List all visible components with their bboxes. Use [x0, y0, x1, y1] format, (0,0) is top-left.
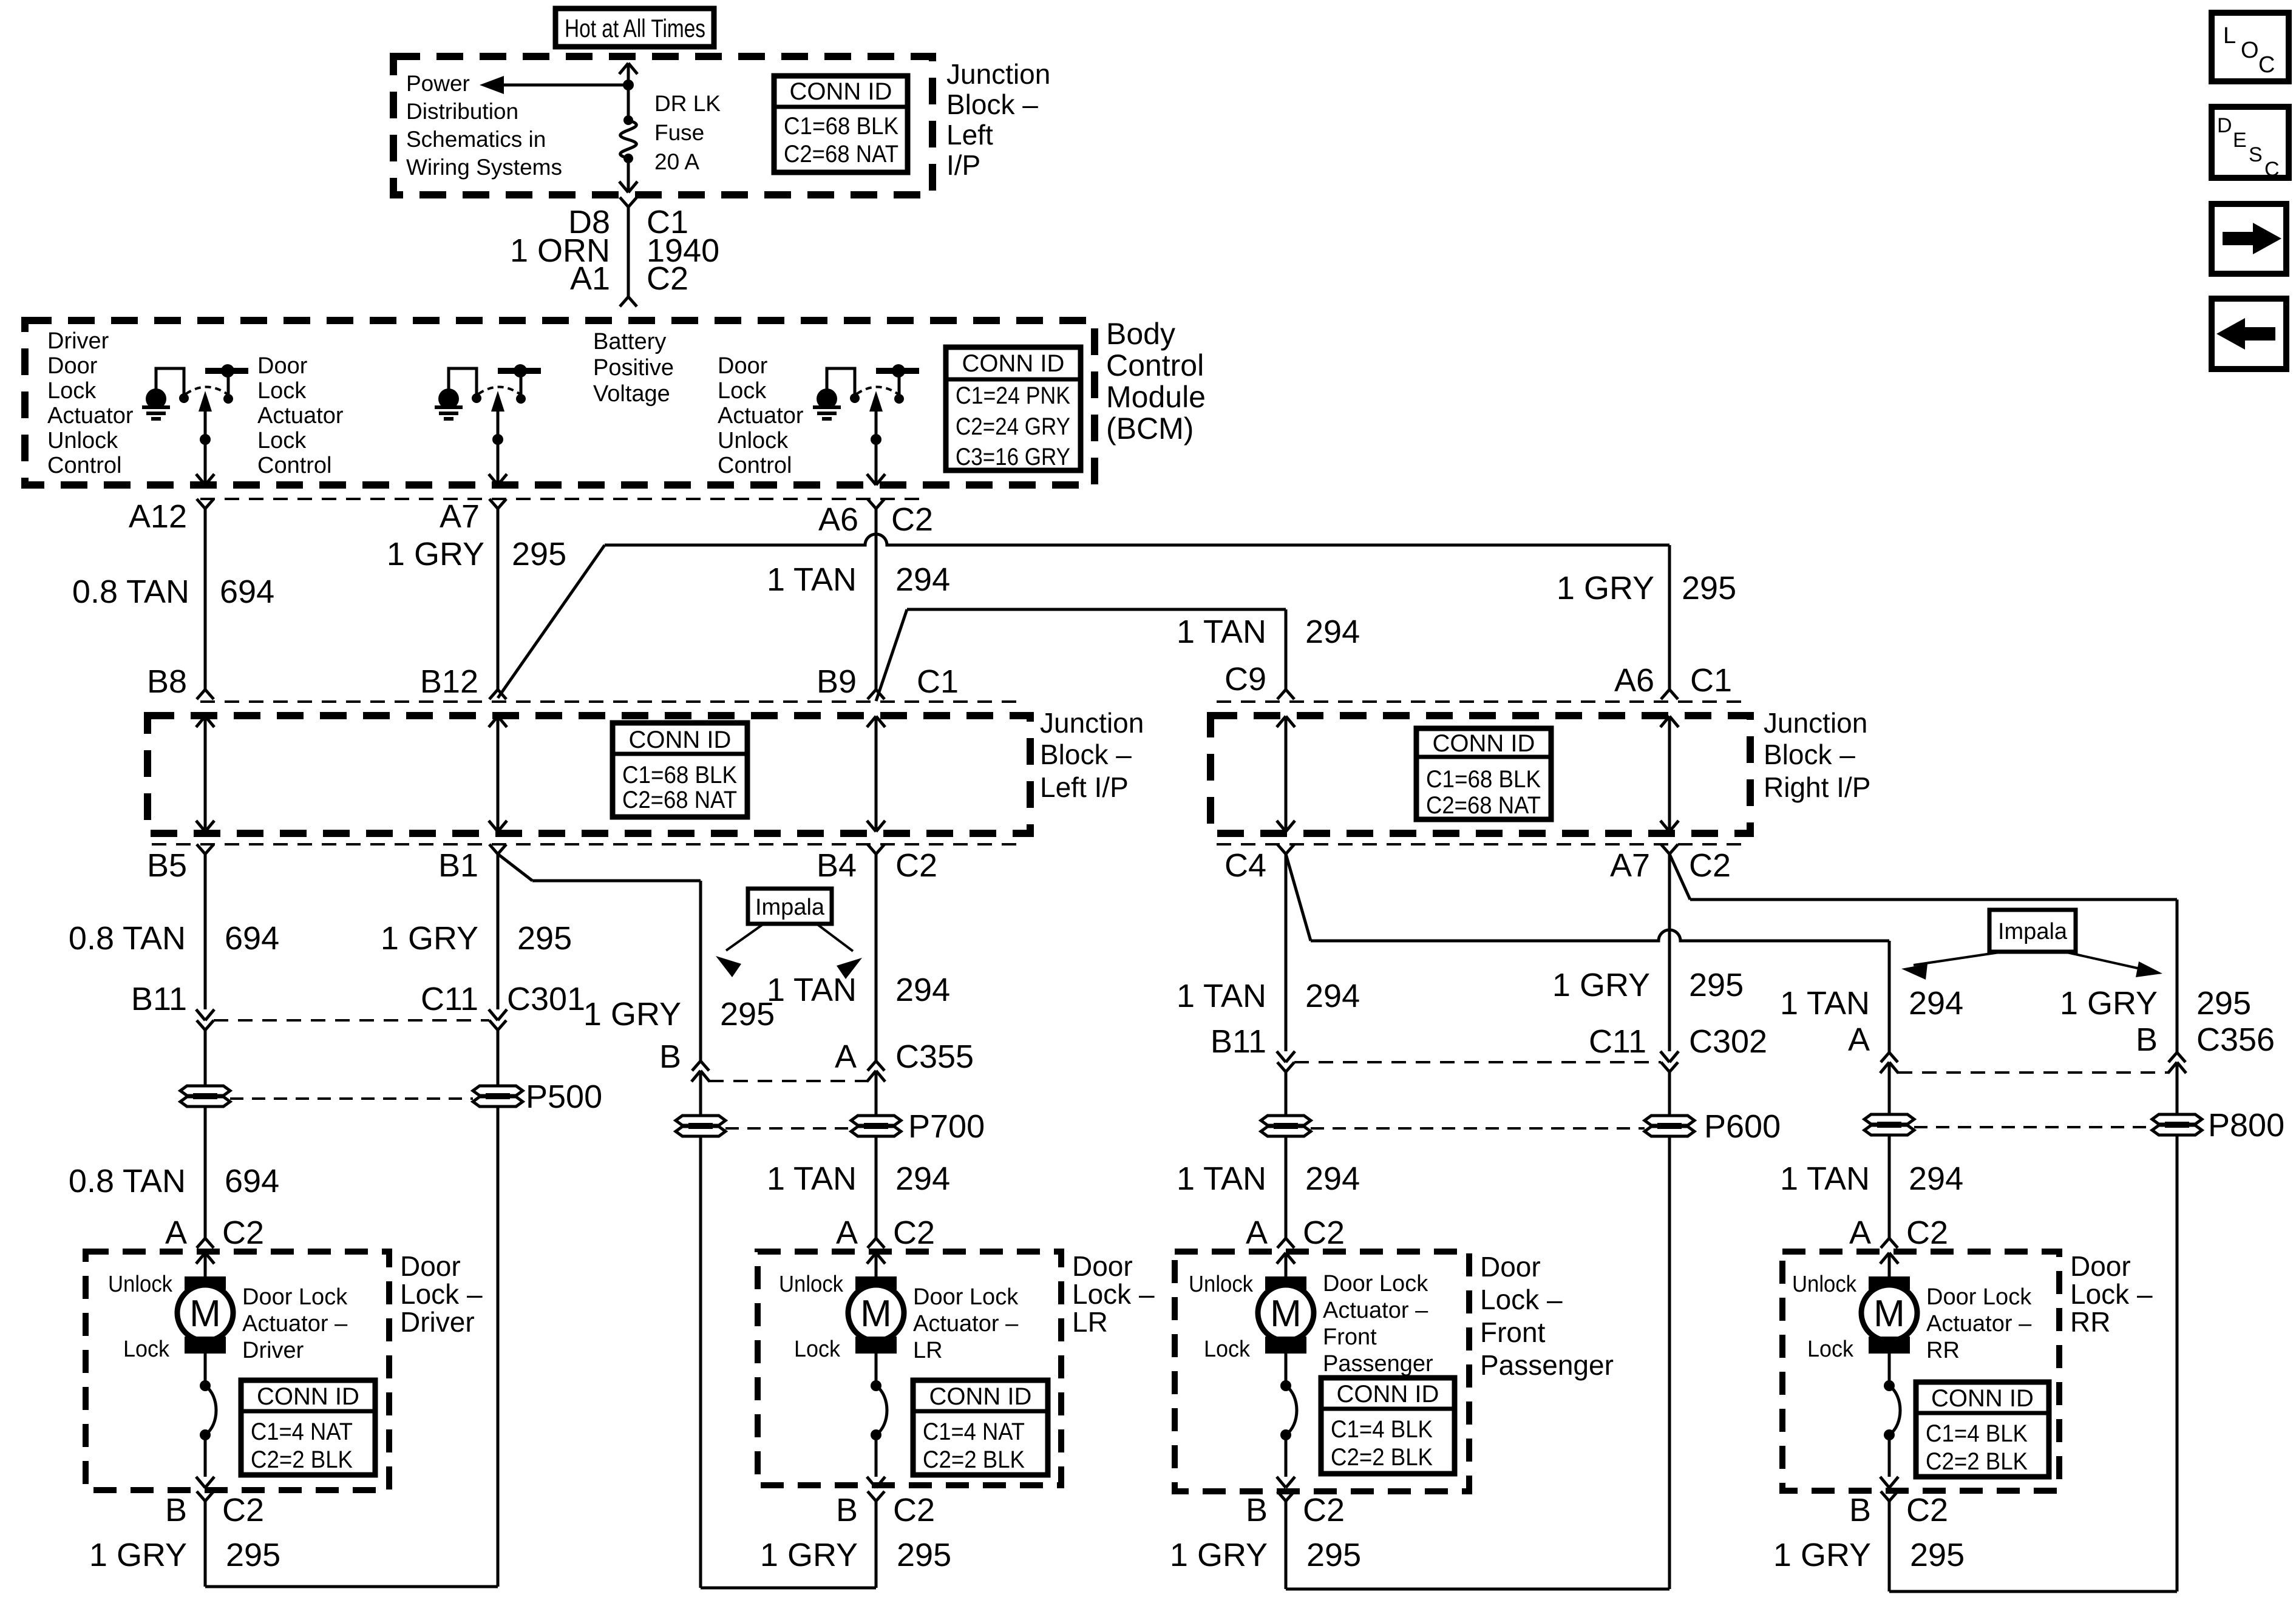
svg-text:Lock: Lock — [123, 1337, 170, 1362]
svg-text:C1=68 BLK: C1=68 BLK — [1426, 766, 1541, 793]
svg-text:C1=4 BLK: C1=4 BLK — [1331, 1416, 1433, 1443]
svg-text:D: D — [2217, 114, 2232, 137]
svg-text:Block –: Block – — [1764, 739, 1855, 770]
svg-text:C: C — [2258, 52, 2275, 78]
svg-text:B5: B5 — [147, 847, 187, 884]
svg-text:B11: B11 — [1211, 1023, 1266, 1060]
svg-text:C1=4 BLK: C1=4 BLK — [1926, 1420, 2028, 1447]
svg-text:B1: B1 — [438, 847, 478, 884]
svg-text:Control: Control — [1106, 348, 1204, 382]
svg-text:B: B — [2136, 1022, 2158, 1058]
svg-text:C11: C11 — [421, 981, 478, 1017]
svg-text:P600: P600 — [1704, 1108, 1781, 1145]
svg-text:B12: B12 — [420, 663, 478, 700]
svg-text:Hot at All Times: Hot at All Times — [565, 14, 705, 42]
svg-text:295: 295 — [512, 536, 566, 572]
svg-text:C2=2 BLK: C2=2 BLK — [251, 1446, 353, 1473]
svg-text:CONN ID: CONN ID — [790, 78, 892, 105]
svg-text:Door Lock: Door Lock — [242, 1284, 348, 1310]
svg-text:B8: B8 — [147, 663, 187, 700]
svg-text:Door: Door — [1480, 1251, 1541, 1283]
svg-text:Lock: Lock — [794, 1337, 841, 1362]
svg-text:1 GRY: 1 GRY — [1557, 570, 1654, 606]
svg-text:P700: P700 — [908, 1108, 985, 1145]
svg-text:A: A — [1849, 1215, 1871, 1251]
svg-text:Distribution: Distribution — [406, 99, 518, 124]
svg-text:Driver: Driver — [400, 1306, 475, 1338]
svg-text:295: 295 — [1682, 570, 1736, 606]
svg-text:C1: C1 — [1690, 662, 1732, 699]
svg-text:Unlock: Unlock — [718, 428, 789, 453]
svg-text:294: 294 — [1305, 978, 1360, 1014]
svg-text:Left I/P: Left I/P — [1040, 771, 1129, 803]
svg-text:Positive: Positive — [593, 355, 674, 381]
svg-text:Lock –: Lock – — [1480, 1284, 1563, 1315]
svg-text:C1=24 PNK: C1=24 PNK — [956, 382, 1070, 409]
svg-text:Wiring Systems: Wiring Systems — [406, 155, 562, 180]
svg-text:C2: C2 — [222, 1215, 264, 1251]
svg-text:Lock: Lock — [257, 378, 307, 404]
svg-text:1 TAN: 1 TAN — [767, 561, 857, 598]
svg-text:Battery: Battery — [593, 329, 666, 354]
svg-text:Door: Door — [47, 353, 98, 379]
svg-text:Control: Control — [47, 453, 122, 478]
svg-text:1 TAN: 1 TAN — [1780, 1161, 1870, 1197]
svg-text:A6: A6 — [1614, 662, 1654, 699]
svg-text:Lock: Lock — [257, 428, 307, 453]
svg-text:295: 295 — [226, 1537, 280, 1573]
svg-text:LR: LR — [1072, 1306, 1108, 1338]
svg-text:A: A — [1246, 1215, 1268, 1251]
svg-text:S: S — [2249, 143, 2263, 166]
svg-text:C2=24 GRY: C2=24 GRY — [956, 413, 1070, 440]
svg-text:A: A — [836, 1215, 858, 1251]
svg-text:Voltage: Voltage — [593, 381, 670, 407]
svg-text:C11: C11 — [1589, 1023, 1646, 1060]
svg-text:CONN ID: CONN ID — [1433, 730, 1535, 757]
svg-text:C2: C2 — [895, 847, 937, 884]
svg-text:1 GRY: 1 GRY — [381, 920, 478, 957]
svg-text:M: M — [1873, 1293, 1905, 1335]
svg-text:Lock –: Lock – — [1072, 1278, 1155, 1310]
svg-text:Fuse: Fuse — [654, 120, 704, 145]
svg-text:1 TAN: 1 TAN — [1177, 978, 1266, 1014]
svg-text:C2=68 NAT: C2=68 NAT — [1426, 792, 1541, 819]
svg-text:CONN ID: CONN ID — [929, 1383, 1032, 1410]
svg-text:295: 295 — [897, 1537, 951, 1573]
svg-text:C355: C355 — [895, 1039, 974, 1075]
svg-text:Block –: Block – — [946, 89, 1038, 120]
svg-text:295: 295 — [1306, 1537, 1361, 1573]
svg-text:C2=2 BLK: C2=2 BLK — [1331, 1444, 1433, 1471]
svg-text:C1=68 BLK: C1=68 BLK — [784, 113, 898, 140]
svg-text:B11: B11 — [131, 981, 187, 1017]
svg-text:295: 295 — [720, 996, 775, 1032]
svg-text:B: B — [165, 1492, 187, 1528]
svg-text:Unlock: Unlock — [779, 1272, 844, 1297]
svg-text:I/P: I/P — [946, 149, 980, 181]
svg-text:M: M — [189, 1293, 221, 1335]
svg-text:Schematics in: Schematics in — [406, 127, 546, 152]
svg-text:Passenger: Passenger — [1480, 1349, 1614, 1381]
svg-text:C2: C2 — [1303, 1492, 1345, 1528]
svg-text:Control: Control — [257, 453, 332, 478]
svg-text:A6: A6 — [818, 501, 858, 538]
svg-text:C2=68 NAT: C2=68 NAT — [784, 141, 898, 168]
svg-text:Lock: Lock — [47, 378, 97, 404]
svg-text:1 GRY: 1 GRY — [1170, 1537, 1268, 1573]
svg-text:Front: Front — [1323, 1324, 1377, 1350]
svg-text:B: B — [659, 1039, 681, 1075]
svg-text:Left: Left — [946, 119, 993, 151]
svg-text:Power: Power — [406, 71, 470, 96]
svg-text:C4: C4 — [1224, 847, 1266, 884]
svg-text:A: A — [835, 1039, 857, 1075]
svg-text:C1: C1 — [917, 663, 959, 700]
svg-text:LR: LR — [913, 1338, 943, 1363]
svg-text:Impala: Impala — [1998, 919, 2068, 944]
svg-text:294: 294 — [1909, 985, 1963, 1022]
svg-text:B4: B4 — [817, 847, 857, 884]
svg-text:C2: C2 — [891, 501, 933, 538]
svg-text:Lock –: Lock – — [400, 1278, 483, 1310]
svg-text:M: M — [1270, 1293, 1302, 1335]
svg-text:CONN ID: CONN ID — [1931, 1385, 2034, 1412]
svg-text:294: 294 — [1305, 1161, 1360, 1197]
svg-text:Door: Door — [1072, 1250, 1133, 1282]
svg-text:(BCM): (BCM) — [1106, 412, 1194, 446]
svg-text:A: A — [1848, 1022, 1870, 1058]
svg-text:1 TAN: 1 TAN — [767, 1161, 857, 1197]
svg-text:Door: Door — [718, 353, 768, 379]
svg-text:C: C — [2264, 158, 2280, 181]
svg-text:694: 694 — [220, 574, 274, 610]
svg-text:294: 294 — [895, 561, 950, 598]
svg-text:Junction: Junction — [1040, 707, 1144, 739]
svg-text:C2: C2 — [893, 1215, 935, 1251]
svg-text:Door: Door — [400, 1250, 461, 1282]
svg-text:RR: RR — [2070, 1306, 2110, 1338]
svg-text:C2=68 NAT: C2=68 NAT — [622, 787, 737, 813]
svg-text:C2: C2 — [1689, 847, 1731, 884]
svg-text:1 GRY: 1 GRY — [1773, 1537, 1871, 1573]
svg-text:Actuator –: Actuator – — [242, 1311, 348, 1337]
svg-text:694: 694 — [225, 920, 279, 957]
svg-text:1 TAN: 1 TAN — [1177, 614, 1266, 650]
svg-text:E: E — [2233, 129, 2247, 152]
svg-text:DR LK: DR LK — [654, 91, 721, 116]
svg-text:Door Lock: Door Lock — [913, 1284, 1019, 1310]
svg-text:Junction: Junction — [1764, 707, 1867, 739]
svg-text:1 GRY: 1 GRY — [89, 1537, 187, 1573]
svg-text:A7: A7 — [440, 498, 480, 535]
svg-text:M: M — [860, 1293, 892, 1335]
svg-text:Door: Door — [257, 353, 308, 379]
svg-text:Actuator –: Actuator – — [913, 1311, 1019, 1337]
svg-text:Junction: Junction — [946, 58, 1050, 90]
svg-text:A: A — [165, 1215, 187, 1251]
svg-text:Unlock: Unlock — [1189, 1272, 1254, 1297]
svg-text:C2: C2 — [1906, 1492, 1948, 1528]
svg-text:C2: C2 — [1303, 1215, 1345, 1251]
svg-text:CONN ID: CONN ID — [629, 727, 732, 753]
svg-text:C2: C2 — [647, 260, 688, 297]
svg-text:Right I/P: Right I/P — [1764, 771, 1870, 803]
svg-text:CONN ID: CONN ID — [962, 350, 1065, 377]
svg-text:0.8 TAN: 0.8 TAN — [69, 920, 186, 957]
svg-text:C2: C2 — [1906, 1215, 1948, 1251]
svg-text:C356: C356 — [2196, 1022, 2275, 1058]
svg-text:A7: A7 — [1610, 847, 1650, 884]
svg-text:C301: C301 — [507, 981, 585, 1017]
svg-text:C302: C302 — [1689, 1023, 1767, 1060]
svg-text:Actuator: Actuator — [257, 403, 344, 429]
svg-text:C1=4 NAT: C1=4 NAT — [251, 1418, 353, 1445]
svg-text:Unlock: Unlock — [1792, 1272, 1857, 1297]
svg-text:Door Lock: Door Lock — [1323, 1271, 1428, 1296]
svg-text:O: O — [2241, 38, 2259, 63]
svg-text:Actuator –: Actuator – — [1323, 1298, 1428, 1323]
svg-text:C1=68 BLK: C1=68 BLK — [622, 762, 737, 788]
svg-text:0.8 TAN: 0.8 TAN — [72, 574, 189, 610]
svg-text:Lock: Lock — [1204, 1337, 1251, 1362]
svg-text:P800: P800 — [2208, 1107, 2284, 1144]
svg-text:CONN ID: CONN ID — [1337, 1381, 1439, 1408]
svg-text:Actuator: Actuator — [718, 403, 804, 429]
svg-text:B: B — [1849, 1492, 1871, 1528]
svg-text:Door: Door — [2070, 1250, 2131, 1282]
svg-text:CONN ID: CONN ID — [257, 1383, 359, 1410]
svg-text:Passenger: Passenger — [1323, 1351, 1433, 1377]
svg-text:Lock: Lock — [1807, 1337, 1854, 1362]
svg-text:C2: C2 — [222, 1492, 264, 1528]
svg-text:A12: A12 — [129, 498, 187, 535]
svg-text:1 GRY: 1 GRY — [387, 536, 484, 572]
svg-text:C9: C9 — [1224, 661, 1266, 697]
svg-text:694: 694 — [225, 1163, 279, 1199]
svg-text:1 TAN: 1 TAN — [767, 972, 857, 1008]
svg-text:Front: Front — [1480, 1317, 1546, 1348]
svg-text:0.8 TAN: 0.8 TAN — [69, 1163, 186, 1199]
svg-text:A1: A1 — [570, 260, 610, 297]
svg-text:295: 295 — [517, 920, 572, 957]
svg-text:B: B — [836, 1492, 858, 1528]
svg-text:B: B — [1246, 1492, 1268, 1528]
svg-text:Unlock: Unlock — [108, 1272, 173, 1297]
svg-text:20 A: 20 A — [654, 149, 699, 174]
svg-text:Door Lock: Door Lock — [1926, 1284, 2032, 1310]
svg-text:1 TAN: 1 TAN — [1780, 985, 1870, 1022]
svg-text:RR: RR — [1926, 1338, 1960, 1363]
svg-text:C2=2 BLK: C2=2 BLK — [923, 1446, 1025, 1473]
svg-text:C2: C2 — [893, 1492, 935, 1528]
svg-text:Impala: Impala — [755, 895, 825, 920]
svg-text:Actuator –: Actuator – — [1926, 1311, 2032, 1337]
svg-text:295: 295 — [1689, 967, 1744, 1003]
svg-text:P500: P500 — [526, 1079, 602, 1115]
svg-text:1 GRY: 1 GRY — [760, 1537, 858, 1573]
svg-text:1 TAN: 1 TAN — [1177, 1161, 1266, 1197]
svg-text:294: 294 — [1909, 1161, 1963, 1197]
svg-text:Lock –: Lock – — [2070, 1278, 2153, 1310]
svg-text:Actuator: Actuator — [47, 403, 134, 429]
svg-text:295: 295 — [1910, 1537, 1965, 1573]
svg-text:294: 294 — [1305, 614, 1360, 650]
svg-text:Unlock: Unlock — [47, 428, 118, 453]
svg-text:Driver: Driver — [242, 1338, 304, 1363]
svg-text:Module: Module — [1106, 380, 1206, 414]
svg-text:294: 294 — [895, 1161, 950, 1197]
svg-text:Lock: Lock — [718, 378, 767, 404]
svg-text:294: 294 — [895, 972, 950, 1008]
svg-text:295: 295 — [2196, 985, 2251, 1022]
svg-text:1 GRY: 1 GRY — [1552, 967, 1650, 1003]
svg-text:1 GRY: 1 GRY — [583, 996, 681, 1032]
svg-text:B9: B9 — [817, 663, 857, 700]
svg-text:Body: Body — [1106, 317, 1175, 351]
svg-text:C1=4 NAT: C1=4 NAT — [923, 1418, 1025, 1445]
svg-text:L: L — [2223, 23, 2236, 49]
svg-text:Block –: Block – — [1040, 739, 1132, 770]
svg-text:Driver: Driver — [47, 328, 109, 354]
svg-text:1 GRY: 1 GRY — [2060, 985, 2158, 1022]
svg-text:C2=2 BLK: C2=2 BLK — [1926, 1448, 2028, 1475]
svg-text:Control: Control — [718, 453, 792, 478]
svg-text:C3=16 GRY: C3=16 GRY — [956, 444, 1070, 470]
